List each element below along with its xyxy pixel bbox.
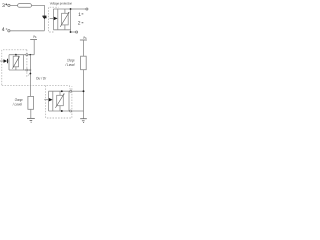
wire charge box to ground <box>30 109 32 118</box>
svg-text:Ps: Ps <box>33 35 36 39</box>
zener diode D1 (vertical, on supply branch) <box>42 16 46 20</box>
BR right edge <box>68 91 70 111</box>
terminal 2 circle <box>76 31 78 33</box>
top rail TR <box>53 8 70 10</box>
svg-text:3: 3 <box>2 3 5 9</box>
terminal 4 circle <box>8 30 10 32</box>
svg-text:Charge: Charge <box>15 98 23 102</box>
junction dot node C <box>70 31 72 33</box>
BR branch wire <box>52 91 54 111</box>
BL top rail <box>9 54 34 56</box>
junction dot BL varistor <box>15 54 17 56</box>
svg-text:4: 4 <box>2 27 5 33</box>
svg-text:Ps: Ps <box>83 36 86 40</box>
wire Ps left down to BL rail <box>33 40 35 55</box>
BL right edge <box>23 55 25 70</box>
svg-text:Charge: Charge <box>67 58 74 62</box>
label Charge / Level (right) <box>65 58 75 67</box>
BR left edge <box>48 91 50 111</box>
dashed enclosure bottom-left block <box>2 50 27 86</box>
varistor RV1 stubs <box>64 9 66 13</box>
svg-text:1: 1 <box>78 12 81 18</box>
BR bottom rail <box>49 110 70 112</box>
wire BL to charge branch <box>29 55 31 97</box>
branch wire (cathode line) <box>57 9 59 30</box>
terminal 3 circle <box>8 4 10 6</box>
svg-text:/ Level: / Level <box>65 63 75 67</box>
svg-text:Voltage protection: Voltage protection <box>50 1 73 5</box>
varistor RV3 box <box>57 95 64 105</box>
bottom rail TR <box>53 29 70 31</box>
terminal 2 label <box>78 21 84 27</box>
BL bottom rail <box>9 69 30 71</box>
right edge TR <box>70 9 72 32</box>
D3 cathode bar <box>6 59 9 63</box>
wire Ps to load box <box>83 40 85 56</box>
label Charge / Level (left) <box>12 98 23 107</box>
junction dots BR <box>61 90 63 92</box>
top-right protection block: zener stub <box>50 17 54 19</box>
junction dot node B <box>70 8 72 10</box>
zener diode D4 <box>49 98 53 102</box>
supply rail Ps (right) bar <box>80 39 87 41</box>
long dashed case line <box>2 86 71 90</box>
varistor RV3 arrow <box>55 94 64 108</box>
wire resistor to node A <box>32 5 45 30</box>
terminal 4 label <box>2 27 8 33</box>
BR zener stub <box>44 99 49 101</box>
load box R2 (Charge/Level right) <box>81 56 87 69</box>
supply rail Ps (left) bar <box>30 39 37 41</box>
varistor RV2 box <box>13 56 18 67</box>
zener diode D3 <box>4 59 8 63</box>
charge box R3 <box>28 96 34 109</box>
BR top rail extension with case circle <box>72 90 84 92</box>
BL crossing circle bottom <box>26 69 28 71</box>
wire terminal4 to node A <box>10 30 44 32</box>
varistor RV1 box <box>62 13 69 25</box>
wire to terminal 1 <box>71 8 86 10</box>
ground <box>27 118 35 122</box>
junction dot BL top rail <box>29 54 31 56</box>
terminal 1 label <box>78 12 83 18</box>
wire right bus to ground <box>83 111 85 119</box>
BL zener stub <box>0 60 4 62</box>
wire load box down right bus <box>72 70 84 111</box>
svg-text:Ou / Dr: Ou / Dr <box>36 76 47 80</box>
wire to terminal 2 <box>71 31 76 33</box>
dashed enclosure bottom-right block <box>46 86 72 118</box>
BR top rail <box>49 90 70 92</box>
wire terminal3 to resistor R1 <box>10 4 18 6</box>
svg-text:2: 2 <box>78 21 81 27</box>
terminal 3 label <box>2 3 7 9</box>
junction dot BL bottom rail corner <box>30 69 32 71</box>
svg-text:/ Level: / Level <box>12 103 22 107</box>
ground (right) <box>80 119 87 123</box>
left edge TR <box>52 9 54 30</box>
BL crossing circle top <box>26 54 28 56</box>
zener diode D2 <box>54 17 58 21</box>
varistor RV2 arrow <box>12 57 19 69</box>
varistor RV2 stubs <box>15 55 17 57</box>
resistor R1 <box>18 4 32 8</box>
terminal 1 circle <box>86 8 88 10</box>
case connection dot <box>30 73 32 75</box>
dashed enclosure top-right block <box>49 7 59 32</box>
varistor RV1 arrow <box>60 13 69 27</box>
BL branch wire <box>8 55 10 70</box>
varistor RV3 stubs <box>59 91 61 95</box>
